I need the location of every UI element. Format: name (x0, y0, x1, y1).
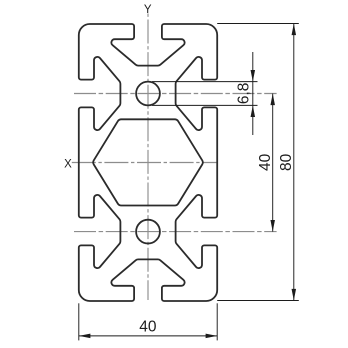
wire ext 80 bottom (217, 300, 299, 302)
svg-text:Y: Y (144, 4, 152, 16)
wire ext 80 top (217, 23, 299, 25)
arrowheads (79, 24, 296, 339)
node bottom-bore centerline (74, 231, 277, 233)
hexagon core cavity (93, 119, 203, 205)
axis X centerline (72, 162, 218, 164)
axis Y centerline (147, 14, 149, 301)
svg-text:80: 80 (278, 153, 295, 171)
node top-bore centerline (74, 93, 277, 95)
wire dim line 80 (293, 24, 295, 301)
wire ext 6.8 bottom (152, 104, 258, 106)
wire dim line 40 right (272, 94, 274, 232)
bore hole top (136, 82, 160, 106)
svg-text:X: X (64, 158, 72, 170)
wire ext 6.8 top (152, 81, 258, 83)
wire dim line 40 bottom (79, 335, 217, 337)
svg-text:6,8: 6,8 (235, 83, 252, 105)
svg-text:40: 40 (257, 153, 274, 171)
svg-text:40: 40 (139, 319, 157, 336)
wire ext bottom-left (78, 303, 80, 340)
profile outline (79, 24, 217, 301)
wire ext bottom-right (216, 303, 218, 340)
bore hole bottom (136, 220, 160, 244)
wire dim line 6.8 (252, 52, 254, 135)
